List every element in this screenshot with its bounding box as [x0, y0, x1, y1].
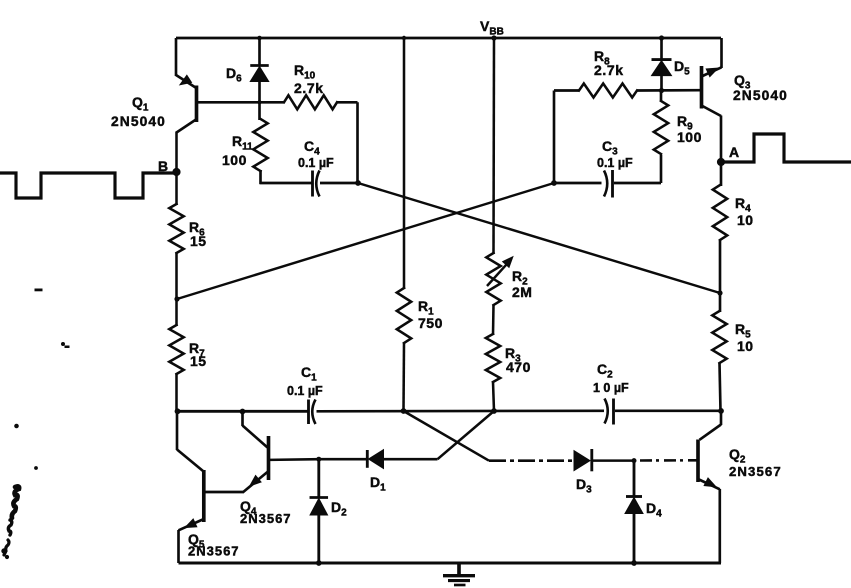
svg-text:D4: D4 — [646, 500, 662, 520]
svg-text:C4: C4 — [304, 138, 320, 158]
svg-text:R11: R11 — [232, 133, 253, 153]
svg-text:D1: D1 — [370, 474, 386, 494]
svg-text:1 0 µF: 1 0 µF — [593, 381, 629, 395]
svg-text:R10: R10 — [294, 62, 316, 82]
svg-text:A: A — [729, 144, 739, 160]
svg-text:D6: D6 — [226, 65, 242, 85]
svg-text:2N5040: 2N5040 — [111, 114, 166, 129]
svg-text:10: 10 — [737, 212, 754, 228]
svg-text:15: 15 — [190, 353, 207, 369]
svg-text:Q1: Q1 — [132, 94, 149, 114]
svg-text:100: 100 — [222, 152, 247, 168]
svg-text:C2: C2 — [597, 361, 613, 381]
svg-text:0.1 µF: 0.1 µF — [298, 156, 334, 170]
svg-text:D2: D2 — [331, 499, 347, 519]
svg-text:B: B — [158, 158, 168, 174]
svg-text:2N5040: 2N5040 — [733, 88, 788, 103]
svg-text:2.7k: 2.7k — [594, 62, 624, 78]
svg-text:C3: C3 — [602, 138, 618, 158]
svg-text:470: 470 — [506, 359, 531, 375]
svg-text:C1: C1 — [301, 364, 317, 384]
svg-text:Q2: Q2 — [729, 446, 746, 466]
svg-text:10: 10 — [737, 338, 754, 354]
svg-text:100: 100 — [677, 129, 702, 145]
svg-text:2N3567: 2N3567 — [188, 544, 240, 559]
svg-text:2N3567: 2N3567 — [240, 511, 292, 526]
svg-text:D3: D3 — [576, 476, 592, 496]
svg-text:15: 15 — [190, 233, 207, 249]
svg-text:0.1 µF: 0.1 µF — [287, 384, 323, 398]
svg-text:D5: D5 — [674, 58, 690, 78]
svg-text:VBB: VBB — [480, 18, 504, 38]
svg-text:750: 750 — [418, 315, 443, 331]
svg-text:2M: 2M — [512, 284, 532, 300]
svg-text:2N3567: 2N3567 — [729, 464, 782, 479]
svg-text:0.1 µF: 0.1 µF — [597, 156, 633, 170]
svg-text:2.7k: 2.7k — [294, 80, 324, 96]
